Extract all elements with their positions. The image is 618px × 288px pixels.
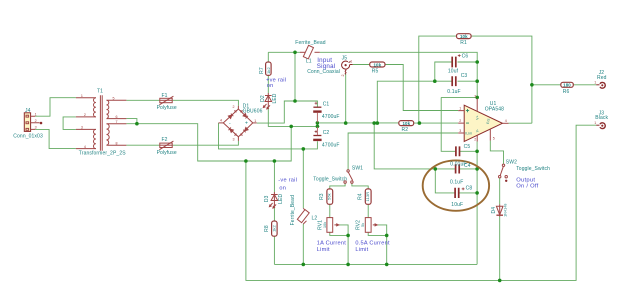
svg-text:180: 180 <box>563 83 571 88</box>
svg-text:J5: J5 <box>342 56 348 62</box>
svg-text:7: 7 <box>116 120 118 124</box>
svg-text:V-: V- <box>475 129 479 132</box>
svg-text:Signal: Signal <box>317 63 336 70</box>
svg-text:-ve rail: -ve rail <box>278 178 297 184</box>
svg-text:T1: T1 <box>97 89 103 95</box>
svg-text:1: 1 <box>459 107 461 111</box>
svg-text:V+: V+ <box>475 115 479 119</box>
svg-text:R3: R3 <box>319 193 325 200</box>
svg-text:SW1: SW1 <box>352 165 363 171</box>
svg-text:+: + <box>245 120 248 126</box>
svg-text:2: 2 <box>341 75 345 77</box>
svg-text:Polyfuse: Polyfuse <box>157 150 177 156</box>
svg-text:C2: C2 <box>323 130 330 136</box>
svg-text:J4: J4 <box>25 108 31 114</box>
svg-text:Limit: Limit <box>317 247 330 253</box>
svg-text:Toggle_Switch: Toggle_Switch <box>313 176 347 182</box>
svg-text:4700uF: 4700uF <box>322 143 340 149</box>
svg-text:ILim: ILim <box>465 131 472 135</box>
svg-text:10k: 10k <box>323 222 327 228</box>
svg-text:3: 3 <box>474 95 476 99</box>
svg-text:4: 4 <box>220 119 222 123</box>
svg-text:1N4148: 1N4148 <box>504 204 508 217</box>
svg-text:C1: C1 <box>323 102 330 108</box>
svg-text:C6: C6 <box>462 53 469 59</box>
svg-text:LED: LED <box>272 93 278 103</box>
svg-text:F1: F1 <box>162 93 168 99</box>
svg-text:4: 4 <box>84 145 86 149</box>
svg-text:0.1uF: 0.1uF <box>450 180 463 186</box>
svg-text:L1: L1 <box>306 58 312 64</box>
svg-text:F2: F2 <box>162 137 168 143</box>
svg-text:5: 5 <box>113 97 115 101</box>
svg-text:6: 6 <box>116 115 118 119</box>
svg-text:SW2: SW2 <box>506 160 517 166</box>
svg-text:On / Off: On / Off <box>516 183 538 189</box>
svg-text:10uF: 10uF <box>451 202 463 208</box>
svg-text:R4: R4 <box>358 193 364 200</box>
svg-text:D3: D3 <box>264 195 270 202</box>
svg-text:on: on <box>279 185 286 191</box>
svg-text:1k2: 1k2 <box>266 66 271 73</box>
svg-text:3: 3 <box>81 126 83 130</box>
svg-text:1: 1 <box>594 81 596 85</box>
svg-text:L2: L2 <box>312 216 318 222</box>
svg-text:Transformer_2P_2S: Transformer_2P_2S <box>79 150 126 156</box>
svg-text:2: 2 <box>474 137 476 141</box>
svg-text:0.5A Current: 0.5A Current <box>355 241 390 247</box>
svg-text:Toggle_Switch: Toggle_Switch <box>516 166 550 172</box>
svg-text:Limit: Limit <box>355 247 368 253</box>
svg-text:D2: D2 <box>260 95 266 102</box>
svg-text:Ferrite_Bead: Ferrite_Bead <box>295 40 325 46</box>
svg-text:5k: 5k <box>361 223 365 227</box>
svg-text:C4: C4 <box>464 163 471 169</box>
svg-text:10k: 10k <box>373 62 381 67</box>
svg-text:2: 2 <box>35 119 37 123</box>
svg-text:Polyfuse: Polyfuse <box>157 105 177 111</box>
svg-text:1: 1 <box>35 112 37 116</box>
svg-text:2: 2 <box>233 105 235 109</box>
svg-text:2: 2 <box>459 119 461 123</box>
svg-text:R1: R1 <box>460 40 467 46</box>
svg-text:10k: 10k <box>402 121 410 126</box>
svg-text:R6: R6 <box>563 89 570 95</box>
svg-text:OPA548: OPA548 <box>485 107 504 113</box>
svg-text:1: 1 <box>81 94 83 98</box>
svg-text:3: 3 <box>233 138 235 142</box>
svg-text:3: 3 <box>459 129 461 133</box>
svg-text:4: 4 <box>505 119 507 123</box>
svg-text:LED: LED <box>278 193 284 203</box>
svg-text:-: - <box>229 120 231 126</box>
svg-text:10k: 10k <box>460 34 468 39</box>
svg-text:1k2: 1k2 <box>272 224 277 231</box>
svg-text:Conn_01x03: Conn_01x03 <box>13 133 43 139</box>
svg-text:56k: 56k <box>327 193 332 200</box>
svg-text:Ferrite_Bead: Ferrite_Bead <box>290 195 296 225</box>
svg-text:C5: C5 <box>464 144 471 150</box>
svg-text:R5: R5 <box>372 69 379 75</box>
svg-text:R7: R7 <box>259 67 265 74</box>
svg-text:Conn_Coaxial: Conn_Coaxial <box>307 69 340 75</box>
svg-text:2: 2 <box>84 113 86 117</box>
svg-text:Red: Red <box>597 75 607 81</box>
svg-text:8: 8 <box>116 141 118 145</box>
svg-text:113R: 113R <box>365 192 370 202</box>
svg-text:Black: Black <box>595 115 608 121</box>
svg-text:GBU606: GBU606 <box>243 108 263 114</box>
svg-text:1: 1 <box>254 119 256 123</box>
svg-text:R2: R2 <box>402 127 409 133</box>
svg-text:C3: C3 <box>461 73 468 79</box>
svg-text:1A Current: 1A Current <box>317 241 346 247</box>
svg-text:D4: D4 <box>491 207 497 214</box>
svg-text:on: on <box>267 83 274 89</box>
svg-text:10uf: 10uf <box>448 69 459 75</box>
svg-text:5: 5 <box>493 137 495 141</box>
svg-text:0.1uF: 0.1uF <box>447 89 460 95</box>
svg-text:R8: R8 <box>264 225 270 232</box>
svg-text:4700uF: 4700uF <box>322 114 340 120</box>
svg-text:1: 1 <box>350 60 352 64</box>
svg-text:1: 1 <box>594 121 596 125</box>
svg-text:C8: C8 <box>466 186 473 192</box>
svg-text:3: 3 <box>35 126 37 130</box>
